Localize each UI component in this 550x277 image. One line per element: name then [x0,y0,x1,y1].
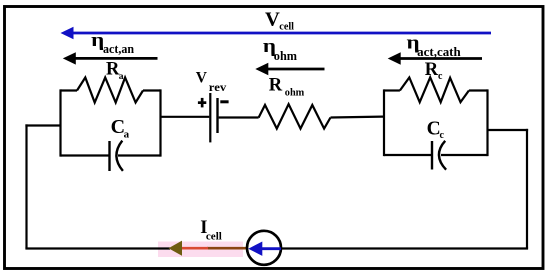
arrow I_cell [169,241,248,256]
wire [25,124,27,248]
wire [25,124,60,126]
capacitor C_c [432,141,446,170]
wire [488,129,529,131]
svg-text:a: a [119,72,124,82]
wire [384,154,432,156]
svg-text:a: a [124,129,130,141]
resistor R_a [77,78,143,103]
label R_ohm [269,76,305,99]
resistor R_c [400,77,469,102]
highlight on I_cell arrow [158,242,243,258]
wire [143,89,161,91]
svg-text:act,cath: act,cath [417,45,461,59]
wire [61,154,110,156]
arrow eta_ohm [255,63,324,75]
wire [159,89,161,156]
wire [384,89,400,91]
wire [469,89,488,91]
label V_cell [265,9,294,33]
label C_a [111,116,130,140]
battery V_rev [210,93,217,142]
capacitor C_a [110,141,123,171]
wire [25,247,170,249]
battery minus sign [220,100,228,103]
wire [59,89,61,156]
wire [526,129,528,249]
svg-text:R: R [425,60,439,80]
svg-text:V: V [265,9,280,31]
svg-text:R: R [269,76,283,96]
label eta_act,cath [407,32,461,59]
svg-text:ohm: ohm [285,88,305,99]
svg-text:cell: cell [279,21,294,32]
wire [161,116,210,118]
svg-text:c: c [438,71,443,82]
label C_c [427,119,445,142]
arrow eta_act,cath [388,52,482,64]
label R_c [425,60,443,82]
arrow V_cell [61,27,492,40]
wire [486,89,488,156]
label eta_ohm [263,35,298,63]
svg-text:cell: cell [206,230,222,242]
wire [441,154,488,156]
svg-text:act,an: act,an [103,42,134,56]
arrow eta_act,an [63,52,158,64]
wire [61,89,78,91]
resistor R_ohm [259,104,331,129]
svg-text:rev: rev [209,80,227,94]
wire [383,89,385,156]
wire [281,247,529,249]
label V_rev [196,70,227,94]
label R_a [106,60,124,83]
svg-text:c: c [440,130,445,141]
svg-text:ohm: ohm [274,49,298,63]
label eta_act,an [91,29,134,55]
svg-text:V: V [196,70,208,87]
current source [247,231,281,265]
wire [331,115,385,118]
battery plus sign [198,98,206,108]
label I_cell [200,218,222,242]
wire [219,116,259,118]
wire [118,154,161,156]
